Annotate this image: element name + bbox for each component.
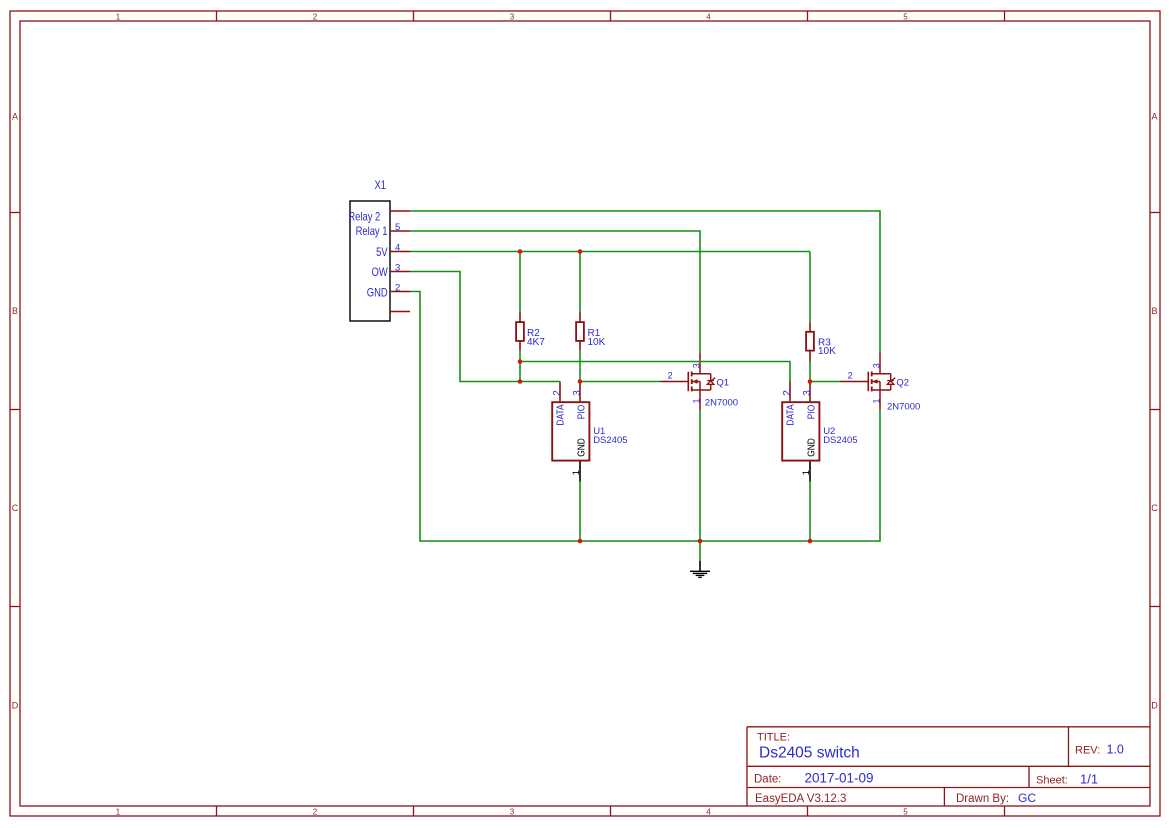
svg-text:10K: 10K: [818, 346, 836, 357]
svg-text:Date:: Date:: [754, 773, 782, 785]
wire 5V rail: [410, 251, 810, 253]
IC U2 DS2405: [782, 382, 858, 482]
Q2 drain arm: [872, 373, 891, 375]
title block: [747, 727, 1150, 806]
svg-text:GND: GND: [806, 438, 818, 457]
node OW/R1/PIO1: [578, 379, 583, 384]
svg-text:OW: OW: [371, 266, 387, 279]
node GNDbus/U2: [808, 539, 813, 544]
svg-text:Sheet:: Sheet:: [1036, 774, 1068, 786]
svg-text:Drawn By:: Drawn By:: [956, 793, 1009, 805]
svg-text:3: 3: [395, 263, 400, 274]
Q2 body arrow: [872, 379, 877, 384]
svg-text:REV:: REV:: [1075, 745, 1100, 757]
resistor R1: [576, 312, 606, 351]
node OW/R2: [518, 379, 523, 384]
svg-text:2: 2: [313, 807, 318, 816]
svg-text:DS2405: DS2405: [593, 435, 627, 446]
svg-text:GND: GND: [576, 438, 588, 457]
svg-text:2017-01-09: 2017-01-09: [805, 771, 874, 786]
svg-text:PIO: PIO: [576, 405, 588, 419]
wire PIO1 to Q1 gate: [580, 381, 661, 383]
connector X1: [348, 179, 410, 321]
svg-text:3: 3: [510, 807, 515, 816]
svg-text:C: C: [1151, 503, 1158, 513]
svg-text:3: 3: [802, 390, 813, 396]
wire GND net: [410, 292, 880, 542]
Q1 gate bar: [687, 372, 689, 392]
Q1 drain arm: [692, 373, 711, 375]
svg-text:1: 1: [801, 470, 812, 475]
svg-text:Ds2405 switch: Ds2405 switch: [759, 744, 860, 761]
svg-text:1: 1: [116, 807, 121, 816]
svg-text:D: D: [1151, 700, 1158, 710]
IC U1 DS2405: [552, 382, 628, 482]
svg-text:1: 1: [692, 398, 702, 403]
resistor R2: [516, 312, 545, 351]
svg-text:1: 1: [571, 470, 582, 475]
Q1 diode triangle: [707, 381, 714, 385]
node 5V/R2: [518, 249, 523, 254]
wire data bus to U2 DATA: [520, 362, 790, 382]
svg-text:DS2405: DS2405: [823, 435, 857, 446]
svg-text:DATA: DATA: [555, 404, 567, 426]
wires: [410, 211, 880, 561]
svg-text:GC: GC: [1018, 791, 1036, 805]
ground symbol: [690, 561, 710, 577]
wire R1 bottom: [579, 351, 581, 382]
X1 pin 2 GND stub: [390, 291, 410, 293]
svg-text:PIO: PIO: [806, 405, 818, 419]
Q1 pin numbers: [668, 363, 702, 403]
U1 pin 1 GND stub: [579, 462, 581, 482]
Q2 gate bar: [867, 372, 869, 392]
X1 pin 3 OW stub: [390, 271, 410, 273]
svg-text:B: B: [1151, 306, 1157, 316]
node GNDbus/U1: [578, 539, 583, 544]
svg-text:DATA: DATA: [785, 404, 797, 426]
U2 pin 1 GND stub: [809, 462, 811, 482]
svg-text:3: 3: [872, 363, 882, 368]
wire 5V to R1: [579, 252, 581, 312]
svg-text:2: 2: [782, 390, 793, 396]
U2 pin 3 PIO stub: [809, 382, 811, 402]
svg-text:EasyEDA V3.12.3: EasyEDA V3.12.3: [755, 793, 846, 805]
svg-text:2N7000: 2N7000: [705, 398, 738, 409]
X1 pin 1 stub: [390, 311, 410, 313]
svg-text:GND: GND: [367, 286, 388, 299]
Q1 diode bar: [707, 380, 714, 382]
svg-text:5: 5: [903, 12, 908, 21]
svg-text:4: 4: [395, 243, 400, 254]
svg-text:Relay 1: Relay 1: [356, 225, 388, 238]
transistor Q1 2N7000: [661, 353, 739, 410]
wire ground stem: [699, 541, 701, 561]
wire U2 GND to bus: [809, 482, 811, 541]
Q2 pin numbers: [848, 363, 882, 403]
svg-text:5: 5: [903, 807, 908, 816]
svg-text:2: 2: [668, 371, 673, 381]
node R2/data: [518, 359, 523, 364]
svg-text:A: A: [12, 111, 18, 121]
U1 pin 2 DATA stub: [559, 382, 561, 402]
Q1 source arm: [692, 389, 711, 391]
svg-text:B: B: [12, 306, 18, 316]
svg-text:2N7000: 2N7000: [887, 402, 920, 413]
U2 pin 2 DATA stub: [789, 382, 791, 402]
Q2 diode bar: [887, 380, 894, 382]
Q2 channel segments: [871, 372, 873, 377]
junction dots: [518, 249, 813, 543]
svg-text:1: 1: [116, 12, 121, 21]
X1 pin 4 5V stub: [390, 251, 410, 253]
svg-text:3: 3: [510, 12, 515, 21]
svg-text:5V: 5V: [376, 246, 388, 259]
svg-text:1: 1: [872, 398, 882, 403]
resistor R3: [806, 322, 836, 362]
wire R2 bottom to OW net: [519, 351, 521, 382]
svg-text:Q1: Q1: [716, 377, 729, 388]
svg-text:4: 4: [706, 12, 711, 21]
X1 pin 5 relay1 stub: [390, 230, 410, 232]
svg-text:TITLE:: TITLE:: [757, 732, 790, 744]
Q1 gate pin: [661, 381, 689, 383]
wire U1 GND to bus: [579, 482, 581, 541]
wire Q1 source to GND bus: [699, 410, 701, 541]
Q2 source arm: [872, 389, 891, 391]
svg-text:D: D: [12, 700, 19, 710]
wire relay1 net: [410, 231, 700, 353]
wire OW net: [410, 272, 560, 382]
svg-text:10K: 10K: [588, 337, 606, 348]
svg-text:2: 2: [395, 283, 400, 294]
Q1 channel segments: [691, 372, 693, 377]
Q2 gate pin: [841, 381, 869, 383]
svg-text:1/1: 1/1: [1080, 771, 1098, 786]
Q2 body contact line: [872, 381, 880, 383]
svg-text:Q2: Q2: [896, 377, 909, 388]
svg-text:5: 5: [395, 222, 400, 233]
svg-text:C: C: [12, 503, 19, 513]
svg-text:3: 3: [572, 390, 583, 396]
svg-text:2: 2: [552, 390, 563, 396]
Q2 body diode arm: [890, 374, 892, 381]
X1 pin relay2 stub: [390, 210, 410, 212]
wire 5V to R3: [809, 252, 811, 323]
transistor Q2 2N7000: [841, 353, 921, 413]
svg-text:2: 2: [848, 371, 853, 381]
svg-text:Relay 2: Relay 2: [348, 211, 380, 224]
svg-text:4K7: 4K7: [527, 337, 545, 348]
node R3/PIO2/gate: [808, 379, 813, 384]
node GNDbus/ground: [698, 539, 703, 544]
U1 pin 3 PIO stub: [579, 382, 581, 402]
node 5V/R1: [578, 249, 583, 254]
svg-text:1.0: 1.0: [1107, 743, 1124, 757]
wire relay2 net: [410, 211, 880, 353]
svg-text:3: 3: [692, 363, 702, 368]
Q2 diode triangle: [887, 381, 894, 385]
wire R3 bottom to Q2 gate: [810, 362, 841, 382]
Q1 body diode arm: [710, 374, 712, 381]
svg-text:2: 2: [313, 12, 318, 21]
svg-text:4: 4: [706, 807, 711, 816]
svg-text:X1: X1: [375, 179, 387, 192]
Q1 body arrow: [692, 379, 697, 384]
wire 5V to R2: [519, 252, 521, 312]
svg-text:A: A: [1151, 111, 1157, 121]
Q1 body contact line: [692, 381, 700, 383]
